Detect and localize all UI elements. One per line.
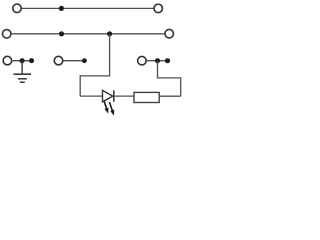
junction dot row3 group1 a — [20, 58, 25, 63]
junction dot row3 group1 b — [29, 58, 34, 63]
wire row3 group3 — [147, 60, 168, 62]
terminal circle row3 group3 — [138, 56, 147, 64]
wire row1 — [22, 7, 154, 9]
junction dot row3 group3 a — [155, 58, 160, 63]
junction dot row2 left — [59, 31, 64, 36]
wire row3 group1 — [12, 60, 31, 62]
ground — [14, 74, 32, 82]
LED D1 — [103, 90, 115, 115]
terminal circle row3 group1 — [3, 56, 12, 65]
wire LED cathode to resistor — [114, 95, 134, 97]
wire ground lead — [21, 61, 23, 74]
junction dot row3 group2 — [82, 58, 87, 63]
wire drop from row3 group3 junction to resistor branch — [158, 61, 181, 96]
junction dot row2 mid — [107, 31, 112, 36]
terminal circle row3 group2 — [54, 56, 63, 65]
wire resistor to right drop — [159, 95, 181, 97]
wire row3 group2 — [64, 60, 85, 62]
junction dot row3 group3 b — [165, 58, 170, 63]
wire LED anode — [80, 95, 102, 97]
resistor R1 — [134, 92, 159, 102]
terminal circle row2 right — [165, 29, 174, 38]
terminal circle row1 right — [154, 4, 163, 13]
junction dot row1 — [59, 6, 64, 11]
terminal circle row2 left — [2, 30, 11, 39]
wire row2 — [12, 33, 165, 35]
wire drop from row2 junction to LED branch — [80, 34, 109, 96]
terminal circle row1 left — [13, 4, 22, 13]
